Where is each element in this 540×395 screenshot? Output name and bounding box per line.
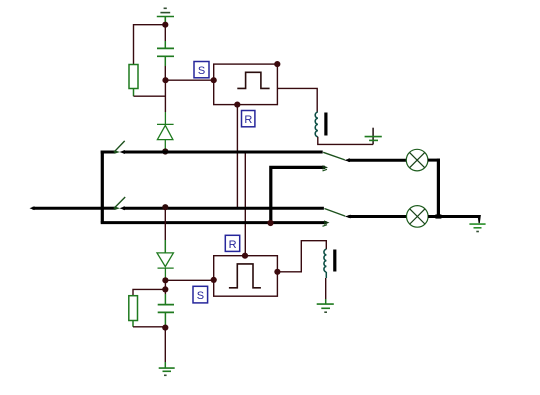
ground G1 (top left, inverted) [157, 8, 174, 24]
wire vertical bus V1 [101, 151, 104, 223]
resistor R1 [129, 65, 138, 89]
node J6 [162, 277, 168, 283]
capacitor C1 [157, 48, 174, 56]
label R (top) [242, 111, 255, 127]
wire LP2 to ground G4 [428, 215, 479, 218]
ground G3 (bottom left) [159, 368, 175, 375]
pin R of U2 [242, 253, 248, 259]
pin (top right corner) of U1 [274, 61, 280, 67]
switch SW2 contact arrow (green) [115, 206, 120, 210]
wire J6-J7-cap C2 [164, 280, 166, 304]
node J7 [162, 286, 168, 292]
wire R2 bottom to node J8 [133, 321, 165, 327]
svg-text:S: S [197, 290, 204, 302]
node J1 [162, 22, 168, 28]
node J9 (V3 joins LP2 wire) [435, 214, 441, 218]
ground G2 (right of relay L1) [365, 128, 382, 145]
wire stub down to ground G4 [478, 215, 481, 223]
node J2 [162, 77, 168, 83]
wire U2 output to relay coil L2 [277, 241, 326, 272]
wire LP1 to vertical V3 [428, 159, 440, 162]
wire J6 to lower pulse box S input [165, 279, 213, 281]
pin OUT of U2 [274, 269, 280, 275]
rail A right segment with left arrow tip [120, 150, 323, 154]
wire U1 R pin down to rail B [236, 105, 238, 209]
switch SW4 lever (bottom relay contact, closed) [324, 209, 345, 217]
node J3 on rail A [162, 148, 168, 154]
ground G4 (far right) [469, 224, 485, 231]
label R (bottom) [225, 235, 239, 251]
pin S of U1 [211, 77, 217, 83]
wire J2 to pulse box S input [166, 79, 214, 81]
node J4 (rail D joins rail C) [267, 220, 273, 226]
label S (bottom) [193, 286, 208, 303]
relay coil L2 [324, 249, 326, 272]
switch SW1 contact arrow (green) [115, 150, 120, 154]
rail C (bottom thick) [101, 221, 327, 224]
pulse generator U2 (bottom monostable box) [214, 256, 278, 297]
wire R1 bottom to node [134, 89, 166, 97]
lamp LP2 [407, 206, 429, 228]
relay L1 core bar [324, 113, 327, 136]
label S (top) [194, 62, 209, 78]
capacitor C2 [158, 305, 174, 313]
wire C2 to node J8 [164, 312, 166, 327]
wire input left arrow end [30, 206, 35, 210]
wire L1 to ground G2 [318, 137, 373, 145]
pin R of U1 [234, 102, 240, 108]
rail B right segment with left arrow tip [120, 206, 324, 210]
U2 pulse symbol [229, 264, 261, 288]
rail B left segment [102, 207, 115, 210]
rail D (middle stub) with vertical V2 [271, 167, 325, 222]
svg-text:S: S [198, 65, 205, 77]
rail D right arrow [323, 165, 329, 169]
switch SW3 lever (top relay contact, closed) [323, 152, 345, 160]
relay coil L1 [315, 112, 318, 137]
wire C1 to node J2 [164, 56, 166, 80]
node J5 (diode D2 tap on rail B) [162, 204, 168, 210]
wire input feed (left) [33, 207, 103, 210]
wire J5 down to diode D2 [164, 208, 166, 253]
wire U1 output to relay coil L1 [277, 88, 317, 112]
resistor R2 [129, 296, 138, 321]
wire SW3 to lamp LP1 with arrow tip [344, 158, 406, 162]
node J8 [162, 325, 168, 331]
svg-text:R: R [244, 114, 252, 126]
wire SW4 to lamp LP2 with arrow tip [345, 215, 407, 219]
wire J8 to ground G3 [164, 328, 166, 369]
wire J1 to capacitor C1 [164, 25, 166, 49]
diode D1 (cathode up) [157, 112, 174, 151]
switch SW2 lever [114, 197, 125, 209]
ground G5 (below relay L2) [317, 304, 334, 312]
pin S of U2 [211, 277, 217, 283]
pulse generator U1 (top monostable box) [214, 64, 278, 105]
switch SW1 lever [114, 141, 125, 152]
rail C green tick [323, 225, 328, 227]
wire vertical V3 [437, 159, 440, 217]
rail D green tick [323, 169, 328, 171]
lamp LP1 [406, 149, 428, 171]
diode D2 (cathode down) [157, 253, 174, 280]
wire J2 down to diode D1 [164, 80, 166, 112]
wire rail A to lower pulse box R pin [244, 152, 246, 256]
rail C right arrow [324, 220, 330, 224]
U1 pulse symbol [237, 72, 269, 88]
wire J1 to resistor R1 top [134, 25, 166, 65]
wire L2 to ground G5 [325, 272, 328, 304]
relay L2 core bar [333, 250, 336, 272]
svg-text:R: R [229, 239, 237, 251]
rail A left segment [101, 151, 116, 154]
wire J7 to resistor R2 [133, 289, 165, 295]
